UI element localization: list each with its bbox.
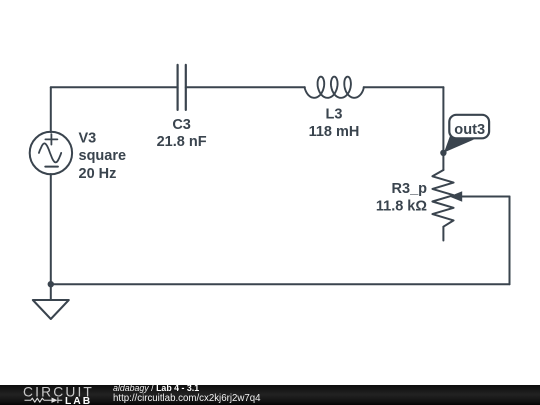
- wire bottom horizontal: [51, 283, 510, 285]
- wire top-right vertical to out3 node: [442, 87, 444, 153]
- svg-text:LAB: LAB: [65, 395, 92, 405]
- potentiometer wiper arrow: [449, 191, 462, 202]
- footer bar: [0, 385, 540, 405]
- svg-text:11.8 kΩ: 11.8 kΩ: [376, 198, 428, 214]
- label L3 value: [309, 107, 360, 141]
- wire right vertical (wiper return): [509, 197, 511, 285]
- out3 flag bubble: [444, 115, 489, 153]
- svg-text:21.8 nF: 21.8 nF: [157, 134, 207, 150]
- svg-text:http://circuitlab.com/cx2kj6rj: http://circuitlab.com/cx2kj6rj2w7q4: [113, 393, 261, 404]
- capacitor C3: [178, 65, 186, 110]
- svg-text:out3: out3: [454, 122, 485, 138]
- svg-text:aldabagy / Lab 4 - 3.1: aldabagy / Lab 4 - 3.1: [113, 385, 199, 393]
- inductor L3: [305, 77, 364, 98]
- svg-text:20 Hz: 20 Hz: [79, 166, 117, 182]
- node out3 dot: [440, 150, 446, 156]
- footer bar background: [0, 385, 540, 405]
- wire left vertical bottom: [50, 174, 52, 284]
- label V3 value: [79, 130, 127, 182]
- svg-text:118 mH: 118 mH: [309, 124, 360, 140]
- svg-text:R3_p: R3_p: [392, 181, 428, 197]
- svg-text:L3: L3: [326, 107, 343, 123]
- logo resistor-diode squiggle: [25, 397, 63, 403]
- svg-text:C3: C3: [172, 117, 191, 133]
- ground: [33, 284, 69, 319]
- svg-text:square: square: [79, 148, 127, 164]
- potentiometer R3_p: [432, 153, 509, 241]
- ground node dot: [48, 281, 54, 287]
- voltage source V3: [30, 132, 72, 174]
- wire left vertical top: [50, 87, 52, 132]
- svg-text:V3: V3: [79, 130, 97, 146]
- wire top-middle horizontal: [186, 86, 305, 88]
- wire top-left horizontal: [51, 86, 178, 88]
- label R3_p value: [376, 181, 428, 215]
- label C3 value: [157, 117, 207, 150]
- wire top-right horizontal: [364, 86, 444, 88]
